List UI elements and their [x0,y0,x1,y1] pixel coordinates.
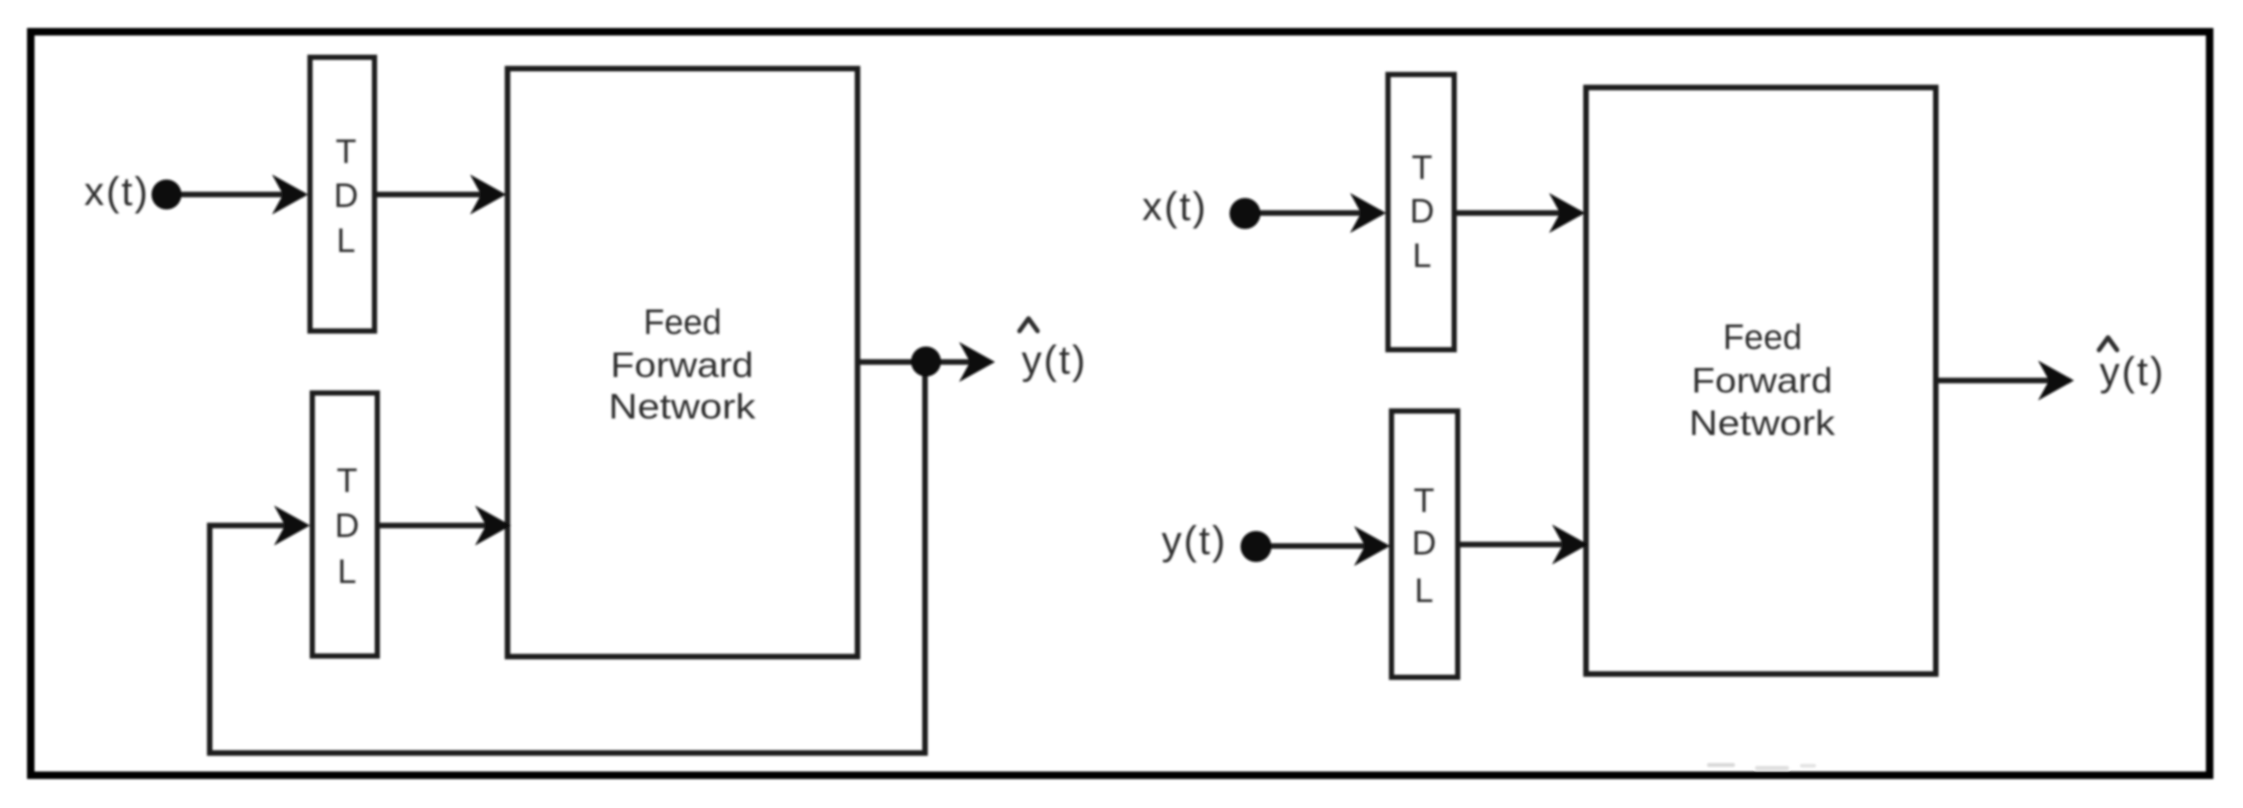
svg-text:T: T [337,462,358,500]
svg-text:T: T [336,133,357,171]
svg-text:Network: Network [1689,404,1836,443]
svg-text:Feed: Feed [644,303,722,342]
svg-text:Feed: Feed [1723,318,1802,357]
svg-text:y(t): y(t) [1022,339,1088,383]
svg-text:x(t): x(t) [84,170,150,214]
svg-text:Forward: Forward [611,346,754,385]
svg-text:L: L [1415,572,1434,610]
svg-text:D: D [1412,525,1437,563]
svg-text:Forward: Forward [1692,362,1833,401]
svg-text:Network: Network [609,388,757,427]
svg-text:L: L [338,553,357,591]
svg-text:y(t): y(t) [2100,350,2166,394]
svg-text:y(t): y(t) [1162,519,1228,563]
svg-text:D: D [335,507,360,545]
svg-text:L: L [1413,237,1432,275]
svg-text:x(t): x(t) [1142,185,1208,229]
svg-text:D: D [334,177,359,215]
svg-text:L: L [337,222,356,260]
svg-text:D: D [1410,193,1435,231]
svg-text:T: T [1414,482,1435,520]
svg-text:T: T [1412,149,1433,187]
